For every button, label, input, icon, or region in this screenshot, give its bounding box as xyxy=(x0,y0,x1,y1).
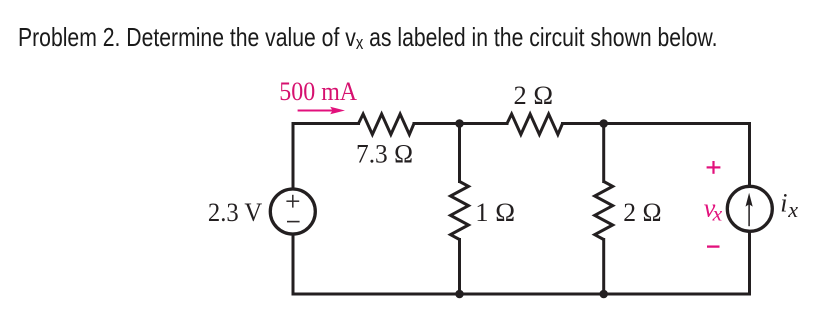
svg-text:1 Ω: 1 Ω xyxy=(475,197,515,227)
svg-text:2.3 V: 2.3 V xyxy=(208,197,262,227)
svg-text:7.3 Ω: 7.3 Ω xyxy=(356,139,413,169)
svg-text:i: i xyxy=(780,189,787,218)
svg-text:500 mA: 500 mA xyxy=(279,76,357,106)
svg-text:2 Ω: 2 Ω xyxy=(623,197,661,227)
svg-text:x: x xyxy=(712,201,723,225)
svg-text:2 Ω: 2 Ω xyxy=(514,80,554,110)
svg-text:x: x xyxy=(787,197,798,222)
